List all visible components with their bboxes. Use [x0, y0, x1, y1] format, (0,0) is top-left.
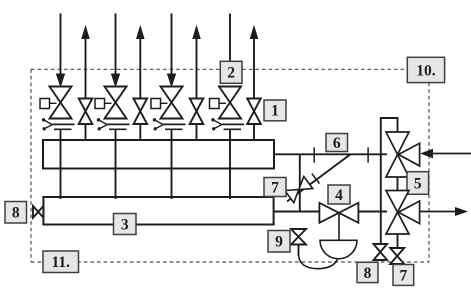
inlet control valve (top, 5 group) — [386, 132, 409, 177]
actuator stem column 7 — [219, 102, 226, 104]
up arrowhead column 2 — [82, 27, 89, 39]
actuator square column 3 — [95, 99, 105, 109]
stub pipe column 6 — [196, 124, 198, 141]
label box 8 (left) — [5, 202, 27, 224]
svg-text:5: 5 — [414, 175, 422, 192]
label box 10 — [407, 57, 444, 82]
inlet branch column 1: wire — [60, 14, 62, 77]
connecting pipe between valves — [397, 177, 399, 191]
inlet branch column 7: wire — [229, 14, 231, 77]
purge fork column 7 — [211, 118, 214, 121]
label box 7 (bypass) — [264, 178, 286, 197]
label box 9 — [268, 231, 290, 253]
flange pair below valve column 3 — [108, 123, 130, 125]
svg-text:6: 6 — [333, 135, 341, 152]
oblique valve (7) on bypass — [285, 177, 313, 203]
label box 6 — [326, 134, 348, 152]
vent valve column 6 — [190, 99, 204, 125]
incoming flow arrow — [432, 153, 471, 155]
bypass loop top — [381, 118, 398, 244]
lower manifold 3 (inlet collector) — [43, 197, 273, 225]
actuator square column 7 — [210, 99, 220, 109]
blowdown valve (8) on left of lower manifold — [33, 206, 43, 218]
drain valve 9 — [291, 229, 306, 245]
shut-off valve with actuator, column 1 — [50, 87, 72, 119]
actuator stem column 5 — [161, 102, 168, 104]
svg-text:4: 4 — [335, 187, 343, 204]
inlet branch column 5: wire — [171, 14, 173, 77]
impulse U-curve to dome — [299, 255, 338, 269]
upper manifold (outlet collector) — [43, 140, 274, 169]
insulating flange tick a — [313, 147, 315, 162]
purge fork column 1 — [42, 118, 45, 121]
flange pair below valve column 1 — [53, 123, 75, 125]
actuator stem column 3 — [105, 102, 112, 104]
pressure regulator valve 4 — [319, 203, 358, 223]
pipe below outlet valve — [397, 234, 399, 249]
up arrowhead column 6 — [193, 27, 200, 39]
outlet control valve (bottom, 5 group) — [386, 191, 409, 235]
label box 3 on lower manifold — [114, 214, 137, 235]
actuator stem column 1 — [50, 102, 57, 104]
down arrowhead column 5 — [168, 74, 176, 86]
stub pipe column 2 — [85, 124, 87, 141]
label box 5 — [407, 172, 429, 195]
down arrowhead column 3 — [112, 74, 120, 86]
drain pipe below valve 9 — [298, 245, 300, 257]
vent stack column 8: wire — [253, 37, 255, 99]
svg-text:3: 3 — [121, 216, 129, 233]
actuator square column 5 — [151, 99, 161, 109]
vent stack column 2: wire — [85, 37, 87, 99]
outlet pipe middle segment — [358, 211, 387, 213]
purge valve 7 (bottom right) — [390, 248, 404, 264]
label box 8 (bottom) — [357, 262, 378, 282]
flange tick on diagonal — [312, 174, 320, 184]
svg-text:7: 7 — [271, 179, 279, 196]
regulator membrane dome — [320, 240, 357, 259]
purge valve 8 (bottom, on bypass loop) — [374, 244, 388, 260]
flange pair below valve column 7 — [222, 123, 244, 125]
inlet valve side triangle — [399, 143, 420, 166]
vent valve column 4 — [134, 99, 148, 125]
actuator square column 1 — [40, 99, 50, 109]
svg-text:11.: 11. — [51, 254, 70, 271]
svg-text:7: 7 — [399, 267, 407, 284]
label box 7 (bottom) — [393, 265, 414, 286]
inlet pipe (upper right) — [274, 153, 387, 155]
down arrowhead column 1 — [57, 74, 65, 86]
svg-text:8: 8 — [12, 205, 20, 222]
label box 1 — [264, 100, 286, 121]
riser pipe column 5 — [171, 129, 173, 199]
purge fork column 5 — [153, 118, 156, 121]
svg-text:1: 1 — [271, 103, 279, 120]
impulse branch line — [299, 154, 301, 211]
vent valve column 2 — [79, 99, 93, 125]
outlet pipe (lower) left segment — [274, 211, 320, 213]
regulator stem — [338, 213, 340, 240]
svg-text:2: 2 — [227, 65, 235, 82]
vent stack column 6: wire — [196, 37, 198, 99]
shut-off valve with actuator, column 5 — [161, 87, 183, 119]
svg-text:10.: 10. — [416, 62, 436, 79]
stub pipe column 4 — [139, 124, 141, 141]
riser pipe column 1 — [60, 129, 62, 199]
label box 11 — [43, 251, 79, 273]
vent valve column 8 — [247, 99, 261, 125]
outgoing flow arrow — [420, 211, 456, 213]
inlet branch column 3: wire — [115, 14, 117, 77]
svg-text:9: 9 — [275, 234, 283, 251]
shut-off valve with actuator, column 7 — [219, 87, 241, 119]
label box 2 — [220, 61, 242, 83]
flange pair below valve column 5 — [164, 123, 186, 125]
outlet valve side triangle — [399, 201, 420, 224]
vent stack column 4: wire — [139, 37, 141, 99]
purge fork column 3 — [97, 118, 100, 121]
shut-off valve with actuator, column 3 — [105, 87, 127, 119]
up arrowhead column 8 — [250, 27, 257, 39]
label box 4 — [328, 185, 350, 204]
stub pipe column 8 — [253, 124, 255, 141]
svg-text:8: 8 — [364, 265, 372, 282]
insulating flange tick b — [367, 147, 369, 162]
up arrowhead column 4 — [137, 27, 144, 39]
dashed enclosure border (plant boundary) — [31, 69, 429, 262]
riser pipe column 3 — [115, 129, 117, 199]
bypass diagonal pipe — [287, 154, 351, 201]
riser pipe column 7 — [229, 129, 231, 199]
